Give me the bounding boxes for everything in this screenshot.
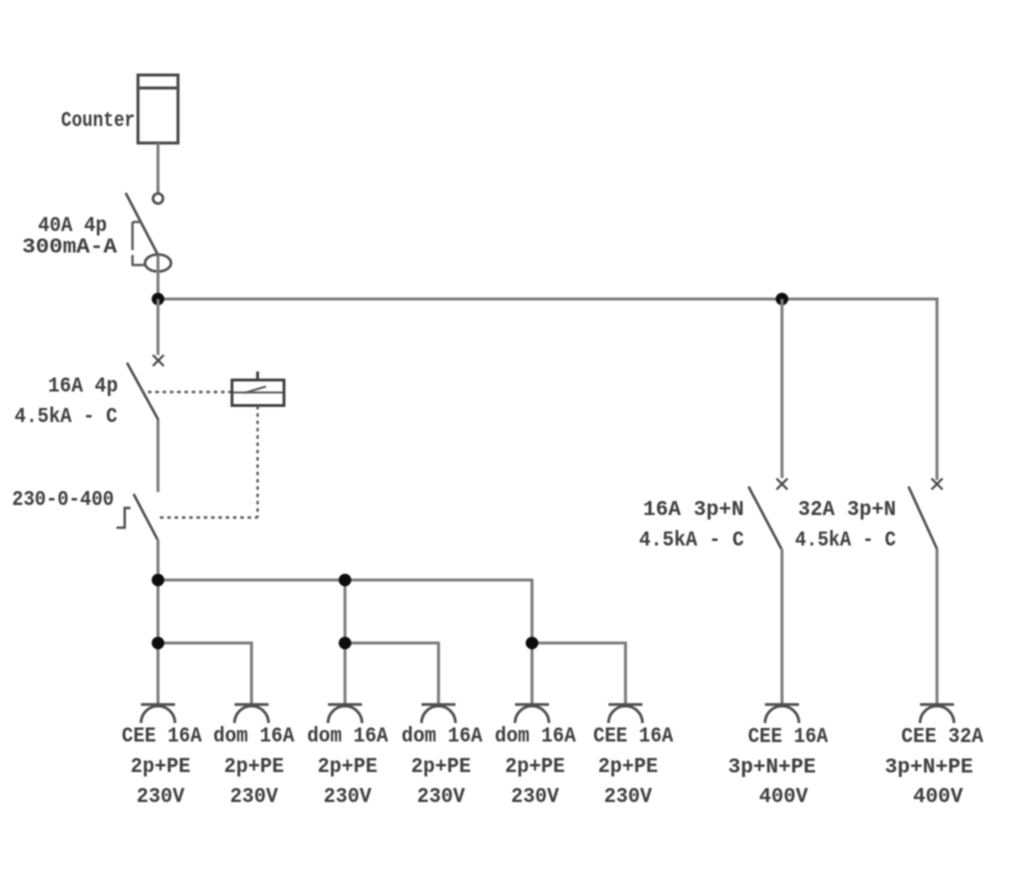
socket X3 symbol [328,705,362,724]
svg-text:CEE 16A: CEE 16A [593,725,673,749]
svg-text:2p+PE: 2p+PE [131,755,191,779]
svg-text:3p+N+PE: 3p+N+PE [885,756,974,780]
label socket X1 [122,725,202,810]
svg-text:4.5kA - C: 4.5kA - C [795,529,896,553]
svg-text:CEE 16A: CEE 16A [748,725,828,749]
svg-text:CEE 16A: CEE 16A [122,725,202,749]
wire feeder 1 [157,580,160,704]
svg-text:CEE 32A: CEE 32A [901,725,983,749]
relay K1 box [232,372,284,406]
breaker Q3 blade [749,487,782,550]
label socket X8 [885,725,984,809]
svg-text:dom 16A: dom 16A [495,725,576,749]
svg-text:2p+PE: 2p+PE [598,755,658,779]
wire Q3 to socket 7 [781,549,784,704]
wire selector to busbar [157,540,160,581]
wire bus to Q3 [781,299,784,478]
svg-text:Counter: Counter [61,109,135,133]
label socket X3 [307,725,388,810]
wire counter to RCD contact [157,143,160,193]
wire Q2 to selector [157,420,160,492]
selector S1 blade [134,494,158,540]
svg-text:2p+PE: 2p+PE [318,755,378,779]
socket X6 symbol [609,705,643,724]
dashed link K1 down [256,406,258,518]
svg-text:32A 3p+N: 32A 3p+N [798,498,896,522]
node main bus left [152,293,165,306]
node row2 left [152,637,165,650]
busbar row 2 segment b [345,643,439,704]
svg-text:400V: 400V [759,785,808,809]
selector S1 latch hook [117,508,131,528]
svg-text:400V: 400V [913,785,963,809]
svg-text:2p+PE: 2p+PE [224,755,284,779]
socket X8 symbol [920,705,954,724]
svg-text:230V: 230V [324,785,372,809]
svg-text:dom 16A: dom 16A [213,725,294,749]
svg-text:4.5kA - C: 4.5kA - C [15,405,118,429]
svg-text:230-0-400: 230-0-400 [12,488,114,512]
main bus wire [158,299,937,480]
svg-text:230V: 230V [417,785,465,809]
socket X2 symbol [235,705,269,724]
svg-text:40A 4p: 40A 4p [38,214,107,238]
node row2 right [526,637,539,650]
label socket X2 [213,725,294,810]
svg-text:230V: 230V [137,785,185,809]
svg-text:dom 16A: dom 16A [402,725,483,749]
svg-text:300mA-A: 300mA-A [22,236,117,260]
wire feeder 3 [344,580,347,704]
busbar row 2 segment c [532,643,626,704]
dashed link to selector [160,516,258,518]
wire bus to breaker Q2 [157,299,160,355]
busbar row 1 [158,580,532,704]
relay K1 contact inside [233,387,283,394]
node row1 left [152,574,165,587]
svg-text:dom 16A: dom 16A [307,725,388,749]
RCD trip linkage dashed bracket [132,222,147,265]
node row2 mid [339,637,352,650]
breaker Q3 x marker [777,479,788,490]
svg-text:2p+PE: 2p+PE [411,755,471,779]
dashed link Q2 to relay K1 [148,391,232,393]
node main bus right [776,293,789,306]
svg-text:2p+PE: 2p+PE [505,755,565,779]
svg-text:4.5kA - C: 4.5kA - C [639,529,744,553]
svg-text:16A 4p: 16A 4p [48,375,118,399]
contact x marker Q2 [153,355,164,366]
socket X5 symbol [515,705,549,724]
RCD fixed contact circle [153,194,163,204]
busbar row 2 segment a [158,643,252,704]
counter (energy meter) box [138,75,178,143]
socket X1 symbol [141,705,175,724]
RCD toroid ellipse [145,255,171,272]
RCD Q1 blade [126,193,158,255]
label socket X5 [495,725,576,810]
svg-text:16A 3p+N: 16A 3p+N [643,498,744,522]
svg-text:3p+N+PE: 3p+N+PE [728,756,816,780]
socket X7 symbol [765,705,799,724]
breaker Q2 blade [127,363,158,420]
label socket X6 [593,725,673,810]
svg-text:230V: 230V [604,785,652,809]
wire Q4 to socket 8 [936,549,939,704]
node row1 mid [339,574,352,587]
breaker Q4 blade [909,487,938,550]
breaker Q4 x marker [932,479,943,490]
svg-text:230V: 230V [230,785,278,809]
socket X4 symbol [422,705,456,724]
label socket X4 [402,725,483,810]
wire RCD to main bus [157,255,160,299]
label socket X7 [728,725,828,809]
svg-text:230V: 230V [511,785,559,809]
